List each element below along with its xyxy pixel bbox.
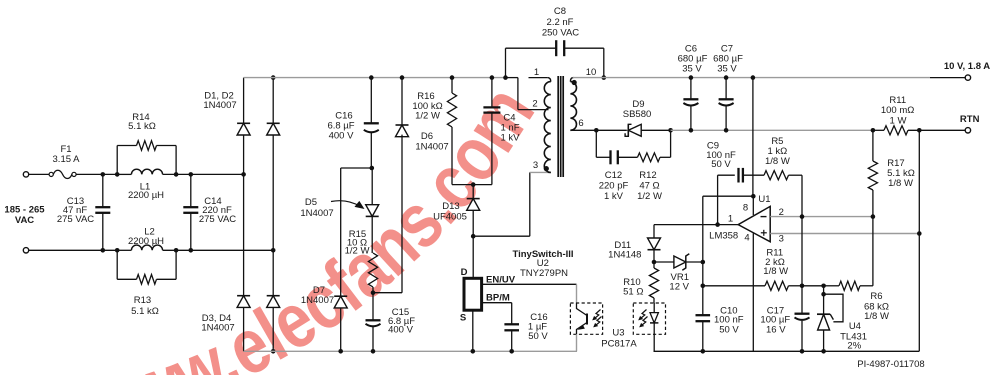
node U4 bottom [821, 349, 826, 354]
decor [92, 109, 536, 375]
svg-text:PC817A: PC817A [601, 339, 637, 350]
wire LED to rail [653, 334, 655, 351]
svg-text:U3: U3 [612, 328, 624, 339]
wire supply left drop [702, 196, 704, 315]
svg-text:3.15 A: 3.15 A [53, 154, 81, 165]
transformer T1 secondary [570, 82, 576, 131]
svg-text:47 Ω: 47 Ω [639, 180, 659, 191]
svg-text:1N4007: 1N4007 [300, 208, 333, 219]
node C6 top [689, 75, 694, 80]
svg-text:4: 4 [744, 233, 749, 244]
wire pin8 row [703, 195, 754, 197]
svg-text:1/8 W: 1/8 W [765, 156, 790, 167]
svg-text:1/2 W: 1/2 W [345, 246, 370, 257]
svg-text:35 V: 35 V [682, 64, 702, 75]
svg-text:1 W: 1 W [890, 116, 907, 127]
wire input top [29, 173, 49, 175]
wire pin4 lead [752, 233, 754, 351]
svg-text:12 V: 12 V [669, 282, 689, 293]
optocoupler U3 LED [633, 303, 665, 334]
svg-text:1N4007: 1N4007 [301, 295, 334, 306]
svg-text:TNY279PN: TNY279PN [520, 268, 568, 279]
svg-text:185 - 265: 185 - 265 [4, 205, 45, 216]
svg-text:1/8 W: 1/8 W [864, 311, 889, 322]
capacitor C4 [483, 78, 500, 185]
svg-text:C8: C8 [554, 6, 566, 17]
node bridge AC2 [271, 248, 276, 253]
node clamp D13 [471, 182, 476, 187]
wire clamp bottom [452, 184, 492, 186]
wire pin1 out [654, 224, 738, 226]
svg-text:PI-4987-011708: PI-4987-011708 [857, 359, 924, 370]
diode D1 [237, 78, 250, 175]
wire R6 riser [872, 217, 874, 286]
transformer T1 primary [544, 82, 551, 173]
node R16 rail [450, 75, 455, 80]
node C4 rail [490, 75, 495, 80]
wire secondary rail [573, 77, 930, 79]
wire C9 to pin1 [717, 175, 719, 224]
phase dot primary [544, 166, 549, 171]
fuse F1 [49, 170, 76, 178]
node L1 left [115, 172, 120, 177]
node pin3 [917, 231, 922, 236]
node U2 source [471, 349, 476, 354]
diode D4 [267, 250, 280, 351]
svg-text:EN/UV: EN/UV [486, 274, 516, 285]
wire U2 EN [482, 284, 577, 303]
svg-text:2200 µH: 2200 µH [128, 236, 164, 247]
svg-text:U1: U1 [758, 194, 770, 205]
svg-text:10 V, 1.8 A: 10 V, 1.8 A [944, 61, 990, 72]
svg-text:5.1 kΩ: 5.1 kΩ [131, 306, 159, 317]
svg-text:1: 1 [728, 213, 733, 224]
node D4 bottom rail [271, 349, 276, 354]
node C15 bottom [371, 349, 376, 354]
svg-text:U4: U4 [849, 321, 861, 332]
svg-text:35 V: 35 V [717, 64, 737, 75]
node D5 branch [370, 166, 375, 171]
resistor R11 fb [703, 281, 802, 290]
node bridge AC1 [241, 172, 246, 177]
node U4 ref [821, 292, 826, 297]
svg-text:3: 3 [533, 160, 538, 171]
svg-text:BP/M: BP/M [486, 293, 510, 304]
wire R5 col lower [801, 217, 803, 314]
svg-text:VAC: VAC [15, 215, 34, 226]
resistor R16 [447, 78, 456, 185]
capacitor C9 [718, 168, 764, 183]
transformer core [557, 76, 559, 177]
node fb right [800, 284, 805, 289]
svg-text:LM358: LM358 [709, 230, 738, 241]
capacitor C8 [506, 40, 604, 77]
zener VR1 [654, 254, 703, 270]
resistor R10 [649, 262, 658, 303]
wire pin1 stub [529, 77, 548, 79]
wire U2 source [472, 310, 474, 351]
resistor R14 [117, 141, 176, 175]
wire pin3 sense [770, 233, 919, 235]
svg-text:275 VAC: 275 VAC [199, 214, 236, 225]
inductor L1 [117, 169, 243, 174]
svg-text:2: 2 [532, 99, 537, 110]
svg-text:250 VAC: 250 VAC [542, 28, 579, 39]
resistor R15 [368, 253, 377, 293]
wire pin3 riser [529, 172, 531, 236]
svg-text:R6: R6 [870, 291, 882, 302]
AC input terminal N [23, 248, 28, 253]
svg-text:UF4005: UF4005 [433, 211, 467, 222]
node C8 left [503, 75, 508, 80]
wire pin6 [572, 129, 596, 131]
capacitor C7 [719, 78, 734, 131]
svg-text:400 V: 400 V [388, 325, 413, 336]
node D9 anode [668, 128, 673, 133]
svg-text:1/8 W: 1/8 W [763, 266, 788, 277]
node D7 bottom [338, 349, 343, 354]
node L1 right [174, 172, 179, 177]
svg-text:C12: C12 [605, 170, 622, 181]
svg-text:1/2 W: 1/2 W [415, 111, 440, 122]
wire pin8 lead [752, 196, 754, 215]
capacitor C6 [683, 78, 698, 131]
node D6 rail [400, 75, 405, 80]
svg-text:2: 2 [779, 207, 784, 218]
svg-text:1N4007: 1N4007 [415, 142, 448, 153]
svg-text:D6: D6 [421, 131, 433, 142]
diode D2 [267, 78, 280, 251]
resistor R5 [764, 171, 802, 180]
resistor R13 [117, 250, 176, 284]
AC input terminal L [23, 172, 28, 177]
node R5 pin2 [800, 214, 805, 219]
svg-text:1/2 W: 1/2 W [637, 191, 662, 202]
svg-text:1 kV: 1 kV [500, 133, 520, 144]
node C9 pin1 [715, 222, 720, 227]
svg-text:220 pF: 220 pF [599, 180, 629, 191]
wire RTN rail [671, 129, 873, 131]
capacitor C12 and resistor R12 snubber [596, 130, 670, 164]
svg-text:1N4007: 1N4007 [203, 100, 236, 111]
svg-text:SB580: SB580 [623, 109, 652, 120]
wire primary return rail [244, 350, 577, 352]
capacitor C17 [795, 314, 810, 352]
node C13 bottom [101, 248, 106, 253]
op-amp U1 [738, 206, 770, 241]
RTN terminal [965, 128, 970, 133]
wire B+ rail [244, 77, 506, 79]
svg-text:D5: D5 [305, 197, 317, 208]
svg-text:1/8 W: 1/8 W [888, 178, 913, 189]
svg-text:2200 µH: 2200 µH [128, 190, 164, 201]
svg-text:8: 8 [743, 203, 748, 214]
wire input bottom [29, 249, 118, 251]
svg-text:1N4148: 1N4148 [608, 250, 641, 261]
IC U2 TNY279PN [464, 278, 482, 310]
svg-text:1N4007: 1N4007 [201, 323, 234, 334]
svg-text:50 V: 50 V [719, 324, 739, 335]
node C7 top [724, 75, 729, 80]
svg-text:16 V: 16 V [766, 324, 786, 335]
svg-text:50 V: 50 V [528, 331, 548, 342]
wire pin2 tap [518, 78, 549, 110]
wire U2 BP [482, 303, 512, 325]
wire R5 drop [801, 175, 803, 216]
node C8 right [602, 75, 607, 80]
capacitor C16 bypass [504, 324, 519, 351]
wire B+ rail to corner [506, 77, 518, 79]
capacitor C13 [95, 174, 110, 250]
node C16 rail [369, 75, 374, 80]
svg-text:400 V: 400 V [329, 131, 354, 142]
svg-text:RTN: RTN [960, 114, 980, 125]
output terminal [965, 75, 970, 80]
diode D3 [237, 174, 250, 351]
wire drain to U2 [472, 236, 474, 278]
svg-text:100 mΩ: 100 mΩ [881, 105, 915, 116]
svg-text:2%: 2% [847, 341, 861, 352]
capacitor C10 [696, 315, 711, 351]
node opamp V+ [751, 194, 756, 199]
shunt reg U4 [817, 286, 843, 352]
D5 label arrow [331, 201, 361, 207]
node pin6 [594, 128, 599, 133]
wire pin3 stub [530, 171, 548, 173]
inductor L2 [117, 245, 273, 250]
capacitor C16 bulk [364, 78, 379, 168]
node VR1 column [701, 260, 706, 265]
diode D9 [596, 124, 670, 136]
svg-text:50 V: 50 V [711, 159, 731, 170]
node pin2 R17 [871, 214, 876, 219]
svg-text:S: S [460, 313, 466, 324]
node C7 bot [724, 128, 729, 133]
svg-text:1: 1 [534, 67, 539, 78]
svg-text:2.2 nF: 2.2 nF [547, 17, 574, 28]
svg-text:5.1 kΩ: 5.1 kΩ [128, 121, 156, 132]
wire pin2 sense [770, 216, 873, 218]
wire drain row [473, 235, 530, 237]
svg-text:51 Ω: 51 Ω [623, 287, 643, 298]
node C13 top [101, 172, 106, 177]
wire secondary rail end [930, 77, 965, 79]
wire D5 node to D7 [341, 167, 372, 169]
wire RTN riser [654, 130, 920, 351]
resistor R17 [868, 130, 877, 216]
wire fuse to node [76, 173, 117, 175]
node D11 R10 [652, 260, 657, 265]
capacitor C15 [366, 293, 381, 352]
wire U4 branch [802, 285, 824, 287]
node L2 right [174, 248, 179, 253]
node C17 bottom [800, 349, 805, 354]
wire supply drop [752, 78, 754, 197]
node fb node [701, 284, 706, 289]
node U4 top [821, 284, 826, 289]
node RTN col [917, 128, 922, 133]
node D2 top rail [271, 75, 276, 80]
svg-text:R13: R13 [134, 295, 151, 306]
diode D5 [366, 168, 379, 253]
node C14 top [189, 172, 194, 177]
resistor R11 sense [873, 126, 965, 135]
node supply rail [751, 75, 756, 80]
resistor R6 [824, 281, 873, 290]
node C14 bottom [189, 248, 194, 253]
node C6 bot [689, 128, 694, 133]
node R15 C15 [371, 290, 376, 295]
diode D11 [648, 225, 661, 262]
svg-text:1 kV: 1 kV [604, 191, 624, 202]
node R17 top [871, 128, 876, 133]
svg-text:3: 3 [779, 234, 784, 245]
node C16b bottom [509, 349, 514, 354]
svg-text:6: 6 [578, 118, 583, 129]
capacitor C14 [183, 174, 198, 250]
svg-text:D: D [461, 267, 468, 278]
diode D6 [373, 78, 409, 293]
svg-text:10: 10 [586, 67, 597, 78]
node drain [471, 234, 476, 239]
phase dot secondary [572, 80, 577, 85]
optocoupler U3 transistor [570, 303, 602, 334]
diode D7 [334, 168, 347, 351]
svg-text:R12: R12 [639, 170, 656, 181]
svg-text:275 VAC: 275 VAC [57, 214, 94, 225]
node L2 left [115, 248, 120, 253]
wire opto emitter [576, 334, 578, 351]
diode D13 [467, 185, 480, 237]
node C10 bottom [701, 349, 706, 354]
